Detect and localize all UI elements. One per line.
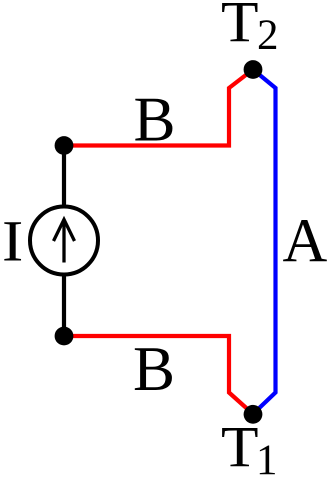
current source arrow shaft (62, 220, 65, 263)
svg-text:B: B (133, 334, 175, 404)
node: bottom-left junction dot (55, 327, 74, 346)
wire: black lead from top-left node down to current source (62, 146, 66, 209)
svg-text:A: A (283, 208, 328, 276)
current source arrow head (54, 220, 75, 242)
wire: black lead from current source down to bottom-left node (62, 273, 66, 336)
svg-text:I: I (2, 209, 23, 274)
svg-text:T: T (221, 0, 259, 55)
wire: top red B conductor from left node to junction T2 (64, 70, 253, 146)
svg-text:T: T (221, 415, 259, 480)
svg-text:1: 1 (256, 437, 278, 484)
wire: blue A conductor from junction T2 to junction T1 (253, 70, 276, 415)
current source I (circle) (30, 207, 98, 275)
node T2: thermocouple junction dot (244, 60, 263, 79)
wire: bottom red B conductor from left node to junction T1 (64, 336, 253, 414)
svg-text:2: 2 (257, 12, 279, 59)
node T1: thermocouple junction dot (244, 405, 263, 424)
node: top-left junction dot (55, 136, 74, 155)
svg-text:B: B (134, 85, 176, 155)
